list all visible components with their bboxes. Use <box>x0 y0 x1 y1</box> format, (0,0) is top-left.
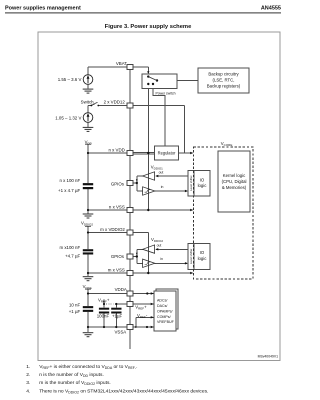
svg-text:MSv40049V1: MSv40049V1 <box>258 355 278 359</box>
svg-text:(LSE, RTC,: (LSE, RTC, <box>213 77 235 82</box>
svg-text:VDDIO2: VDDIO2 <box>81 221 93 227</box>
svg-text:IO: IO <box>200 250 205 255</box>
svg-text:VREF-: VREF- <box>137 313 148 319</box>
svg-text:VREF+ is either connected to V: VREF+ is either connected to VDDA or to … <box>39 364 137 370</box>
svg-text:Switch: Switch <box>81 100 94 105</box>
svg-text:GPIOs: GPIOs <box>111 182 125 187</box>
svg-text:2 x VDD12: 2 x VDD12 <box>104 100 126 105</box>
svg-text:m is the number of VDDIO2 inpu: m is the number of VDDIO2 inputs. <box>39 380 111 386</box>
svg-text:10 nF: 10 nF <box>69 302 81 307</box>
svg-text:DACs/: DACs/ <box>157 304 167 308</box>
svg-text:n is the number of VDD inputs.: n is the number of VDD inputs. <box>39 372 104 378</box>
svg-text:m x VDDIO2: m x VDDIO2 <box>100 227 125 232</box>
svg-text:n x VSS: n x VSS <box>109 205 125 210</box>
svg-text:(CPU, Digital: (CPU, Digital <box>222 179 247 184</box>
svg-text:OPAMPs/: OPAMPs/ <box>157 309 173 313</box>
svg-text:VREF+: VREF+ <box>135 305 147 311</box>
svg-text:AN4555: AN4555 <box>261 5 281 11</box>
svg-text:VCORE: VCORE <box>221 141 233 147</box>
svg-text:n x 100 nF: n x 100 nF <box>59 178 80 183</box>
svg-text:VDDIO2: VDDIO2 <box>151 237 163 243</box>
svg-text:Figure 3. Power supply scheme: Figure 3. Power supply scheme <box>105 24 192 30</box>
svg-text:Backup circuitry: Backup circuitry <box>208 71 239 76</box>
svg-text:VBAT: VBAT <box>116 61 127 66</box>
svg-text:ADCs/: ADCs/ <box>157 299 167 303</box>
svg-text:4.: 4. <box>26 388 30 394</box>
svg-text:logic: logic <box>198 183 208 188</box>
svg-text:logic: logic <box>198 256 208 261</box>
svg-text:n x VDD: n x VDD <box>108 147 124 152</box>
svg-text:in: in <box>160 257 163 261</box>
svg-text:& Memories): & Memories) <box>222 185 247 190</box>
svg-text:1.: 1. <box>26 364 30 370</box>
svg-text:Level shifter: Level shifter <box>189 249 193 265</box>
svg-text:VDDA: VDDA <box>115 287 127 292</box>
svg-text:in: in <box>161 185 164 189</box>
svg-text:VREFBUF: VREFBUF <box>157 320 175 324</box>
svg-text:2.: 2. <box>26 372 30 378</box>
svg-text:1.05 – 1.32 V: 1.05 – 1.32 V <box>55 115 81 120</box>
svg-text:+1 x 4.7 µF: +1 x 4.7 µF <box>58 188 80 193</box>
svg-text:There is no VDDIO2 on STM32L41: There is no VDDIO2 on STM32L41xxx/42xxx/… <box>39 388 208 394</box>
svg-text:m x VSS: m x VSS <box>108 268 125 273</box>
svg-text:Kernel logic: Kernel logic <box>223 173 246 178</box>
svg-text:Backup registers): Backup registers) <box>207 83 241 88</box>
svg-text:Regulator: Regulator <box>158 151 176 156</box>
svg-text:GPIOs: GPIOs <box>111 254 125 259</box>
svg-text:IO: IO <box>200 178 205 183</box>
svg-text:VSSA: VSSA <box>114 330 126 335</box>
svg-text:out: out <box>157 243 162 247</box>
svg-text:VDDIO1: VDDIO1 <box>151 164 163 170</box>
svg-text:3.: 3. <box>26 380 30 386</box>
svg-text:+4.7 µF: +4.7 µF <box>65 254 80 259</box>
svg-text:out: out <box>159 171 164 175</box>
svg-text:+1 µF: +1 µF <box>69 309 81 314</box>
svg-text:1.55 – 3.6 V: 1.55 – 3.6 V <box>58 77 82 82</box>
svg-text:COMPs/: COMPs/ <box>157 315 171 319</box>
svg-text:VDDA: VDDA <box>83 284 92 290</box>
svg-text:+1µF: +1µF <box>112 314 123 319</box>
svg-text:m x100 nF: m x100 nF <box>59 245 80 250</box>
svg-text:VREF+: VREF+ <box>98 297 110 303</box>
svg-text:Level shifter: Level shifter <box>189 175 193 191</box>
svg-text:Power switch: Power switch <box>156 92 176 96</box>
svg-text:Power supplies management: Power supplies management <box>5 5 81 11</box>
svg-text:100nF: 100nF <box>97 314 110 319</box>
